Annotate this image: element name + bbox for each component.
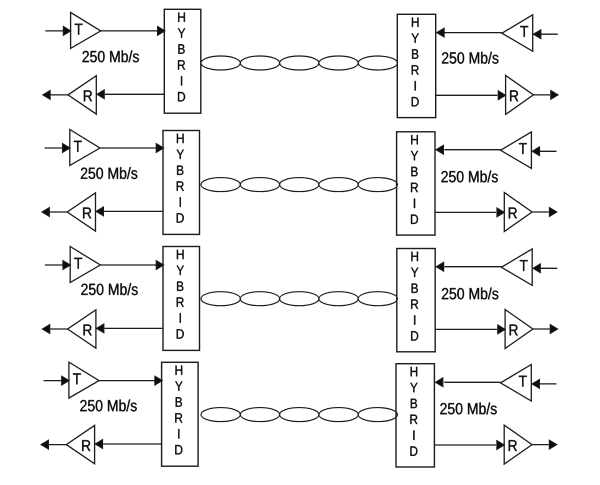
wire: input to right T ch4: [540, 383, 557, 385]
HYBRID letters (left) ch1: [178, 13, 185, 102]
wire: right R output ch1: [533, 94, 550, 96]
receiver R (left) ch2: [67, 193, 95, 231]
HYBRID letters (right) ch3: [411, 252, 418, 341]
arrowhead into right R ch3: [498, 325, 506, 334]
label T (left) ch1: [75, 24, 83, 35]
hybrid box (left) ch3: [163, 247, 200, 351]
wire: left R output ch2: [50, 211, 67, 213]
wire: left T output to HYBRID ch4: [99, 380, 157, 382]
wire: left HYBRID to receiver R ch2: [104, 210, 163, 212]
arrowhead into right T ch2: [532, 147, 540, 156]
transmitter T (right) ch3: [501, 249, 532, 286]
wire: input to right T ch2: [540, 150, 557, 152]
hybrid box (left) ch4: [162, 362, 199, 466]
HYBRID letters (left) ch4: [175, 366, 182, 455]
label R (left) ch3: [84, 325, 92, 336]
transmitter T (right) ch2: [501, 132, 532, 169]
label 250 Mb/s (right) ch3: [442, 288, 498, 300]
arrowhead right R output ch3: [550, 325, 558, 334]
label R (right) ch1: [510, 90, 518, 101]
arrowhead right R output ch4: [549, 440, 557, 449]
arrowhead right R output ch1: [551, 90, 559, 99]
arrowhead into left T ch2: [63, 144, 71, 153]
receiver R (right) ch4: [504, 425, 532, 464]
wire: input to left transmitter T ch2: [45, 147, 63, 149]
label R (left) ch1: [84, 90, 92, 101]
arrowhead into left R ch4: [95, 440, 103, 449]
hybrid box (left) ch2: [163, 131, 200, 235]
arrowhead into right R ch1: [498, 91, 506, 100]
wire: left HYBRID to receiver R ch1: [105, 93, 165, 95]
HYBRID letters (right) ch1: [412, 18, 419, 107]
wire: input to left transmitter T ch1: [45, 30, 63, 32]
wire: right T output to HYBRID ch1: [444, 32, 502, 34]
wire: right T output to HYBRID ch3: [444, 266, 501, 268]
arrowhead right R output ch2: [549, 208, 557, 217]
arrowhead into right R ch2: [497, 208, 505, 217]
arrowhead into right HYBRID ch2: [436, 145, 444, 154]
arrowhead into left R ch1: [97, 90, 105, 99]
label R (right) ch2: [509, 208, 517, 219]
receiver R (right) ch2: [504, 193, 532, 232]
arrowhead left R output ch2: [42, 208, 50, 217]
hybrid box (right) ch1: [397, 14, 435, 117]
label T (right) ch1: [520, 26, 528, 37]
label 250 Mb/s (right) ch1: [442, 52, 498, 64]
wire: right R output ch4: [532, 444, 549, 446]
label T (right) ch3: [520, 260, 528, 271]
wire: right T output to HYBRID ch2: [444, 149, 500, 151]
HYBRID letters (left) ch3: [177, 250, 184, 339]
label R (right) ch4: [509, 440, 517, 451]
hybrid box (right) ch2: [397, 132, 435, 235]
arrowhead into left HYBRID ch2: [156, 144, 164, 153]
arrowhead into left HYBRID ch4: [155, 376, 163, 385]
wire: right HYBRID to R ch4: [434, 444, 496, 446]
receiver R (right) ch1: [506, 75, 534, 114]
label 250 Mb/s (left) ch2: [81, 167, 137, 179]
arrowhead into left R ch2: [96, 207, 104, 216]
hybrid box (left) ch1: [164, 9, 201, 113]
wire: input to left transmitter T ch3: [45, 264, 63, 266]
transmitter T (left) ch3: [70, 247, 100, 283]
wire: right HYBRID to R ch3: [435, 328, 497, 330]
arrowhead into left HYBRID ch1: [158, 26, 166, 35]
wire: right HYBRID to R ch2: [435, 211, 496, 213]
arrowhead into right T ch4: [532, 379, 540, 388]
transmitter T (right) ch1: [502, 15, 533, 52]
wire: left R output ch3: [50, 328, 68, 330]
arrowhead into left T ch3: [63, 261, 71, 270]
arrowhead into right HYBRID ch4: [435, 378, 443, 387]
wire: left HYBRID to receiver R ch4: [103, 443, 162, 445]
wire: left T output to HYBRID ch1: [101, 30, 157, 32]
transmitter T (right) ch4: [501, 365, 532, 402]
wire: right T output to HYBRID ch4: [444, 381, 500, 383]
receiver R (left) ch3: [68, 310, 96, 348]
label T (left) ch3: [74, 258, 82, 269]
twisted-pair cable ellipses ch4: [201, 408, 240, 422]
arrowhead left R output ch4: [41, 440, 49, 449]
arrowhead left R output ch1: [43, 90, 51, 99]
twisted-pair cable ellipses ch1: [201, 56, 240, 70]
twisted-pair cable ellipses ch3: [201, 292, 240, 306]
wire: left T output to HYBRID ch2: [100, 147, 157, 149]
label R (left) ch4: [82, 440, 90, 451]
label R (left) ch2: [83, 208, 91, 219]
wire: left R output ch1: [51, 94, 69, 96]
label 250 Mb/s (right) ch2: [441, 171, 497, 183]
wire: left HYBRID to receiver R ch3: [104, 327, 163, 329]
transmitter T (left) ch1: [71, 12, 101, 48]
label T (right) ch2: [519, 143, 527, 154]
HYBRID letters (right) ch4: [410, 367, 417, 456]
label R (right) ch3: [510, 325, 518, 336]
receiver R (left) ch1: [68, 76, 96, 114]
arrowhead into left HYBRID ch3: [156, 261, 164, 270]
label T (right) ch4: [519, 376, 527, 387]
wire: right R output ch3: [533, 328, 550, 330]
arrowhead left R output ch3: [42, 325, 50, 334]
wire: right R output ch2: [532, 211, 549, 213]
wire: input to right T ch3: [541, 267, 558, 269]
label T (left) ch2: [74, 141, 82, 152]
wire: right HYBRID to R ch1: [436, 94, 498, 96]
arrowhead into left T ch1: [63, 26, 71, 35]
label 250 Mb/s (left) ch3: [81, 283, 137, 295]
receiver R (right) ch3: [505, 310, 533, 349]
HYBRID letters (left) ch2: [177, 134, 184, 223]
arrowhead into right R ch4: [497, 441, 505, 450]
hybrid box (right) ch3: [397, 249, 435, 352]
transmitter T (left) ch2: [70, 130, 100, 166]
receiver R (left) ch4: [66, 425, 94, 463]
label 250 Mb/s (left) ch4: [80, 400, 136, 412]
twisted-pair cable ellipses ch2: [201, 178, 240, 192]
arrowhead into right T ch1: [533, 30, 541, 39]
wire: input to left transmitter T ch4: [44, 380, 62, 382]
wire: left R output ch4: [49, 444, 67, 446]
transmitter T (left) ch4: [69, 362, 99, 398]
arrowhead into left R ch3: [96, 324, 104, 333]
hybrid box (right) ch4: [396, 364, 434, 467]
arrowhead into right HYBRID ch3: [436, 262, 444, 271]
label 250 Mb/s (left) ch1: [83, 50, 139, 62]
wire: left T output to HYBRID ch3: [100, 264, 157, 266]
label T (left) ch4: [73, 373, 81, 384]
HYBRID letters (right) ch2: [411, 135, 418, 224]
arrowhead into right T ch3: [533, 264, 541, 273]
arrowhead into left T ch4: [62, 376, 70, 385]
label 250 Mb/s (right) ch4: [440, 403, 496, 415]
arrowhead into right HYBRID ch1: [437, 28, 445, 37]
wire: input to right T ch1: [541, 33, 558, 35]
